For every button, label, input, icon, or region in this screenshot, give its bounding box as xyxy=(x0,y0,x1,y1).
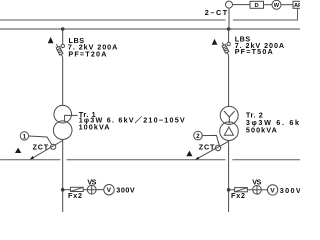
wire: branch to fuse xyxy=(63,189,71,191)
triangle marker right bottom xyxy=(186,151,192,157)
grounding conductor left (through ZCT) xyxy=(31,141,63,160)
svg-text:100kVA: 100kVA xyxy=(79,123,110,132)
wire: VS to voltmeter right xyxy=(261,189,267,191)
wire: fuse to VS right xyxy=(247,189,252,191)
triangle marker right top xyxy=(212,39,218,45)
svg-text:PF=T20A: PF=T20A xyxy=(68,49,106,58)
triangle marker left bottom xyxy=(15,148,21,153)
svg-text:300V: 300V xyxy=(116,186,135,195)
wire: VS to voltmeter xyxy=(96,189,104,191)
fuse Fx2 left xyxy=(70,187,83,191)
wire: LBS2 to Tr.2 xyxy=(228,55,230,106)
svg-text:PF=T50A: PF=T50A xyxy=(235,47,273,56)
svg-text:V: V xyxy=(107,187,112,194)
voltmeter switch VS right xyxy=(253,186,262,195)
circled number 2 xyxy=(194,131,203,140)
wire: main bus y=29 xyxy=(0,28,300,30)
wire: left feeder bus to LBS xyxy=(62,29,64,44)
wire: branch to fuse right xyxy=(229,189,235,191)
fuse Fx2 right xyxy=(235,188,248,192)
voltmeter switch VS left xyxy=(87,185,96,194)
wire: LBS1 to Tr.1 xyxy=(62,57,64,105)
LBS 1 blade xyxy=(56,44,62,57)
wire: CT to D box xyxy=(233,4,251,6)
leader from 2 to ZCT xyxy=(202,135,219,145)
meter W (wattmeter) xyxy=(272,0,281,9)
LBS 1 power fuse xyxy=(56,46,63,55)
grounding conductor right (through ZCT) xyxy=(196,141,229,159)
wire: fuse to VS xyxy=(83,189,87,191)
svg-text:AP: AP xyxy=(294,3,300,9)
wire: D to W xyxy=(264,4,273,6)
ground/boundary line y=159.7 xyxy=(0,159,300,161)
voltmeter V right xyxy=(267,185,277,195)
svg-text:VS: VS xyxy=(252,178,261,187)
node: junction dot left LV branch xyxy=(61,188,65,192)
leader from 1 to ZCT xyxy=(29,136,52,144)
svg-text:D: D xyxy=(255,3,259,9)
LBS 2 blade xyxy=(222,42,228,55)
delta symbol inside Tr.2 secondary xyxy=(224,127,233,135)
triangle marker left top xyxy=(48,37,54,43)
wire: W to AP xyxy=(281,4,293,6)
wire: metering return line y=20 left segment xyxy=(0,19,226,21)
svg-text:Fx2: Fx2 xyxy=(231,191,245,200)
node: junction dot right LV branch xyxy=(227,188,231,192)
meter AP box (clipped at edge) xyxy=(293,1,307,8)
wire: right feeder bus to LBS xyxy=(228,29,230,42)
LBS 2 power fuse xyxy=(222,44,229,53)
svg-text:V: V xyxy=(270,187,275,194)
arrowhead left ground xyxy=(30,156,34,160)
transformer Tr.1 primary circle xyxy=(54,105,72,123)
svg-text:500kVA: 500kVA xyxy=(246,126,277,135)
node: junction dot left feeder on bus xyxy=(61,27,65,31)
wire: Tr.2 secondary down to bottom edge xyxy=(228,141,230,213)
ZCT 1 circle xyxy=(51,144,56,149)
transformer Tr.2 secondary circle xyxy=(220,122,239,141)
wire: metering return line y=20 right segment up to AP box xyxy=(233,9,298,20)
svg-text:2–CT: 2–CT xyxy=(205,8,228,17)
transformer Tr.2 primary circle xyxy=(220,106,238,124)
LBS 1 contact circle xyxy=(61,44,64,47)
circled number 1 xyxy=(20,132,28,140)
svg-text:Fx2: Fx2 xyxy=(68,191,82,200)
node: junction dot right feeder on bus xyxy=(227,27,231,31)
wire: CT down to main bus xyxy=(228,8,230,29)
svg-text:VS: VS xyxy=(87,177,96,186)
LBS 2 contact circle xyxy=(227,42,230,45)
wire: Tr.1 secondary down to bottom edge xyxy=(62,140,64,213)
voltmeter V left xyxy=(104,185,114,195)
CT (current transformer) circle xyxy=(226,1,233,8)
ZCT 2 circle xyxy=(215,145,220,150)
transformer Tr.1 secondary circle xyxy=(53,121,72,140)
svg-text:W: W xyxy=(274,3,280,9)
svg-text:300V: 300V xyxy=(280,186,300,195)
arrowhead right ground xyxy=(195,157,199,160)
leader line Tr.1 xyxy=(65,115,78,121)
wye symbol inside Tr.2 primary xyxy=(224,111,235,124)
meter D box xyxy=(250,1,264,8)
